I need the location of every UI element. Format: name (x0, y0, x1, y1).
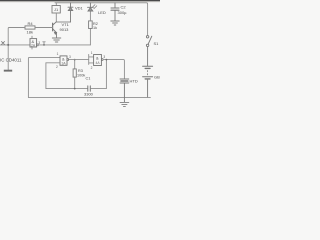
svg-text:&: & (96, 55, 99, 60)
ground (emitter) (52, 38, 61, 42)
svg-text:S1: S1 (154, 41, 160, 46)
wire J1 top lead (55, 3, 57, 6)
wire gate2 out to gate3 (69, 59, 89, 61)
input terminal x (2, 42, 5, 45)
piezo sounder HTD (120, 79, 129, 102)
wire C1 right (91, 60, 107, 89)
wire input row (0, 44, 30, 46)
gate3 output bubble (101, 59, 103, 61)
transistor VT1 (53, 22, 57, 38)
svg-text:3A: 3A (62, 61, 67, 65)
diode VD1 (68, 3, 73, 22)
svg-text:R4: R4 (28, 21, 34, 26)
svg-text:3300: 3300 (84, 91, 94, 96)
svg-text:HTD: HTD (130, 79, 138, 84)
svg-text:2A: 2A (31, 44, 36, 48)
svg-text:VD1: VD1 (75, 6, 84, 11)
svg-text:R3: R3 (78, 69, 83, 73)
wire bottom rail (28, 96, 150, 98)
LED VD2 (88, 3, 97, 11)
gate1 pin tick top (31, 36, 33, 38)
svg-text:IC CD4011: IC CD4011 (0, 58, 22, 63)
resistor R2 (89, 21, 93, 29)
wire osc node row (46, 88, 88, 90)
svg-text:2: 2 (91, 66, 93, 70)
ground (C2) (111, 21, 119, 25)
gate2 output bubble (67, 59, 69, 61)
svg-text:GB: GB (154, 75, 160, 80)
svg-text:2: 2 (56, 65, 58, 69)
ground (HTD) (120, 102, 129, 106)
wire R4 left to rail (8, 28, 25, 70)
wire R2 branch (89, 29, 91, 45)
svg-text:3: 3 (69, 55, 71, 59)
gate U1b (60, 56, 67, 65)
svg-text:300µ: 300µ (118, 10, 128, 15)
switch S1 (146, 36, 151, 66)
svg-text:1k: 1k (93, 26, 97, 30)
svg-text:9013: 9013 (60, 27, 70, 32)
wire gate1 output (38, 44, 90, 46)
gate3 input tie bar (89, 54, 94, 64)
relay J1 (52, 6, 60, 14)
svg-text:100k: 100k (77, 74, 85, 78)
svg-text:C1: C1 (86, 77, 91, 81)
svg-text:3: 3 (38, 41, 40, 45)
svg-text:1: 1 (57, 52, 59, 56)
svg-text:LED: LED (98, 10, 106, 15)
touch plate M (4, 70, 12, 72)
wire gate3 output (103, 60, 125, 79)
battery GB (143, 66, 153, 97)
wire top rail (55, 3, 148, 36)
wire gate2 lower input (46, 63, 60, 89)
wire R4 to base (35, 27, 53, 29)
capacitor C1 (88, 86, 91, 91)
wire J1 to collector node (55, 13, 57, 22)
gate U1c (94, 55, 102, 66)
gate1 output bubble (37, 44, 39, 46)
wire collector node to VD1 (56, 21, 70, 23)
svg-text:1: 1 (91, 51, 93, 55)
wire gate2 input feedback (28, 57, 60, 97)
node test point (43, 42, 45, 45)
svg-text:C2: C2 (121, 5, 127, 10)
capacitor C2 (111, 3, 119, 21)
gate1 pin tick bottom (31, 47, 33, 49)
svg-text:3: 3 (103, 55, 105, 59)
resistor R3 (74, 60, 76, 69)
svg-text:4A: 4A (96, 61, 101, 65)
resistor R4 (25, 26, 35, 29)
gate U1a (30, 39, 37, 47)
svg-text:18k: 18k (27, 30, 33, 35)
node junction (7, 44, 9, 46)
wire R2 to LED (89, 11, 91, 21)
